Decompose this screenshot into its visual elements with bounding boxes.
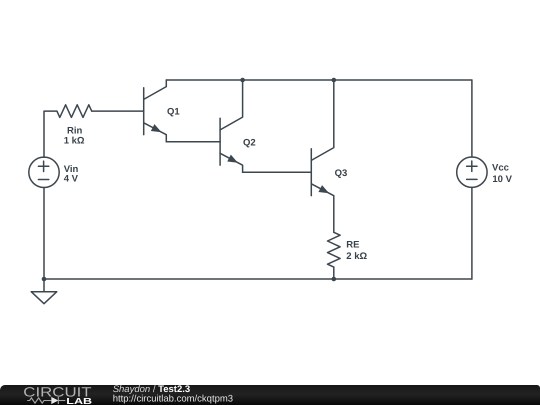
wire right rail upper [471,80,473,157]
svg-text:Q2: Q2 [243,137,256,148]
ground [31,279,57,304]
wire Rin to Q1 base [92,110,144,112]
svg-text:4 V: 4 V [64,174,79,185]
arrow Q3 emitter [318,185,330,197]
node RE bottom junction [332,277,337,282]
node Q3 collector junction [332,78,337,83]
transistor Q3 [311,80,334,232]
resistor RE [327,232,340,267]
logo diode triangle [51,396,58,403]
svg-text:Q3: Q3 [335,168,348,179]
svg-text:LAB: LAB [66,395,92,405]
svg-text:1 kΩ: 1 kΩ [64,136,85,147]
wire bottom rail [44,278,472,280]
wire right rail lower [471,187,473,279]
transistor Q2 [220,80,243,172]
svg-text:Vcc: Vcc [492,162,509,173]
svg-text:10 V: 10 V [492,174,512,185]
logo squiggle wire [27,396,65,403]
wire top rail [166,79,472,81]
svg-text:2 kΩ: 2 kΩ [346,251,367,262]
voltage source Vin [29,157,59,187]
svg-text:Q1: Q1 [167,107,180,118]
svg-text:http://circuitlab.com/ckqtpm3: http://circuitlab.com/ckqtpm3 [113,393,233,404]
arrow Q1 emitter [151,124,163,136]
wire Q1 emitter to Q2 base [166,141,220,143]
node Q2 collector junction [240,78,245,83]
voltage source Vcc [457,157,487,187]
svg-text:RE: RE [346,239,359,250]
footer bar [0,385,540,405]
wire Vin to Rin corner [44,111,57,157]
node ground junction [42,277,47,282]
transistor Q1 [144,80,167,142]
wire Q2 emitter to Q3 base [243,171,312,173]
resistor Rin [57,105,92,118]
wire Vin to bottom rail [43,188,45,280]
wire RE to bottom rail [333,267,335,279]
arrow Q2 emitter [227,155,239,167]
